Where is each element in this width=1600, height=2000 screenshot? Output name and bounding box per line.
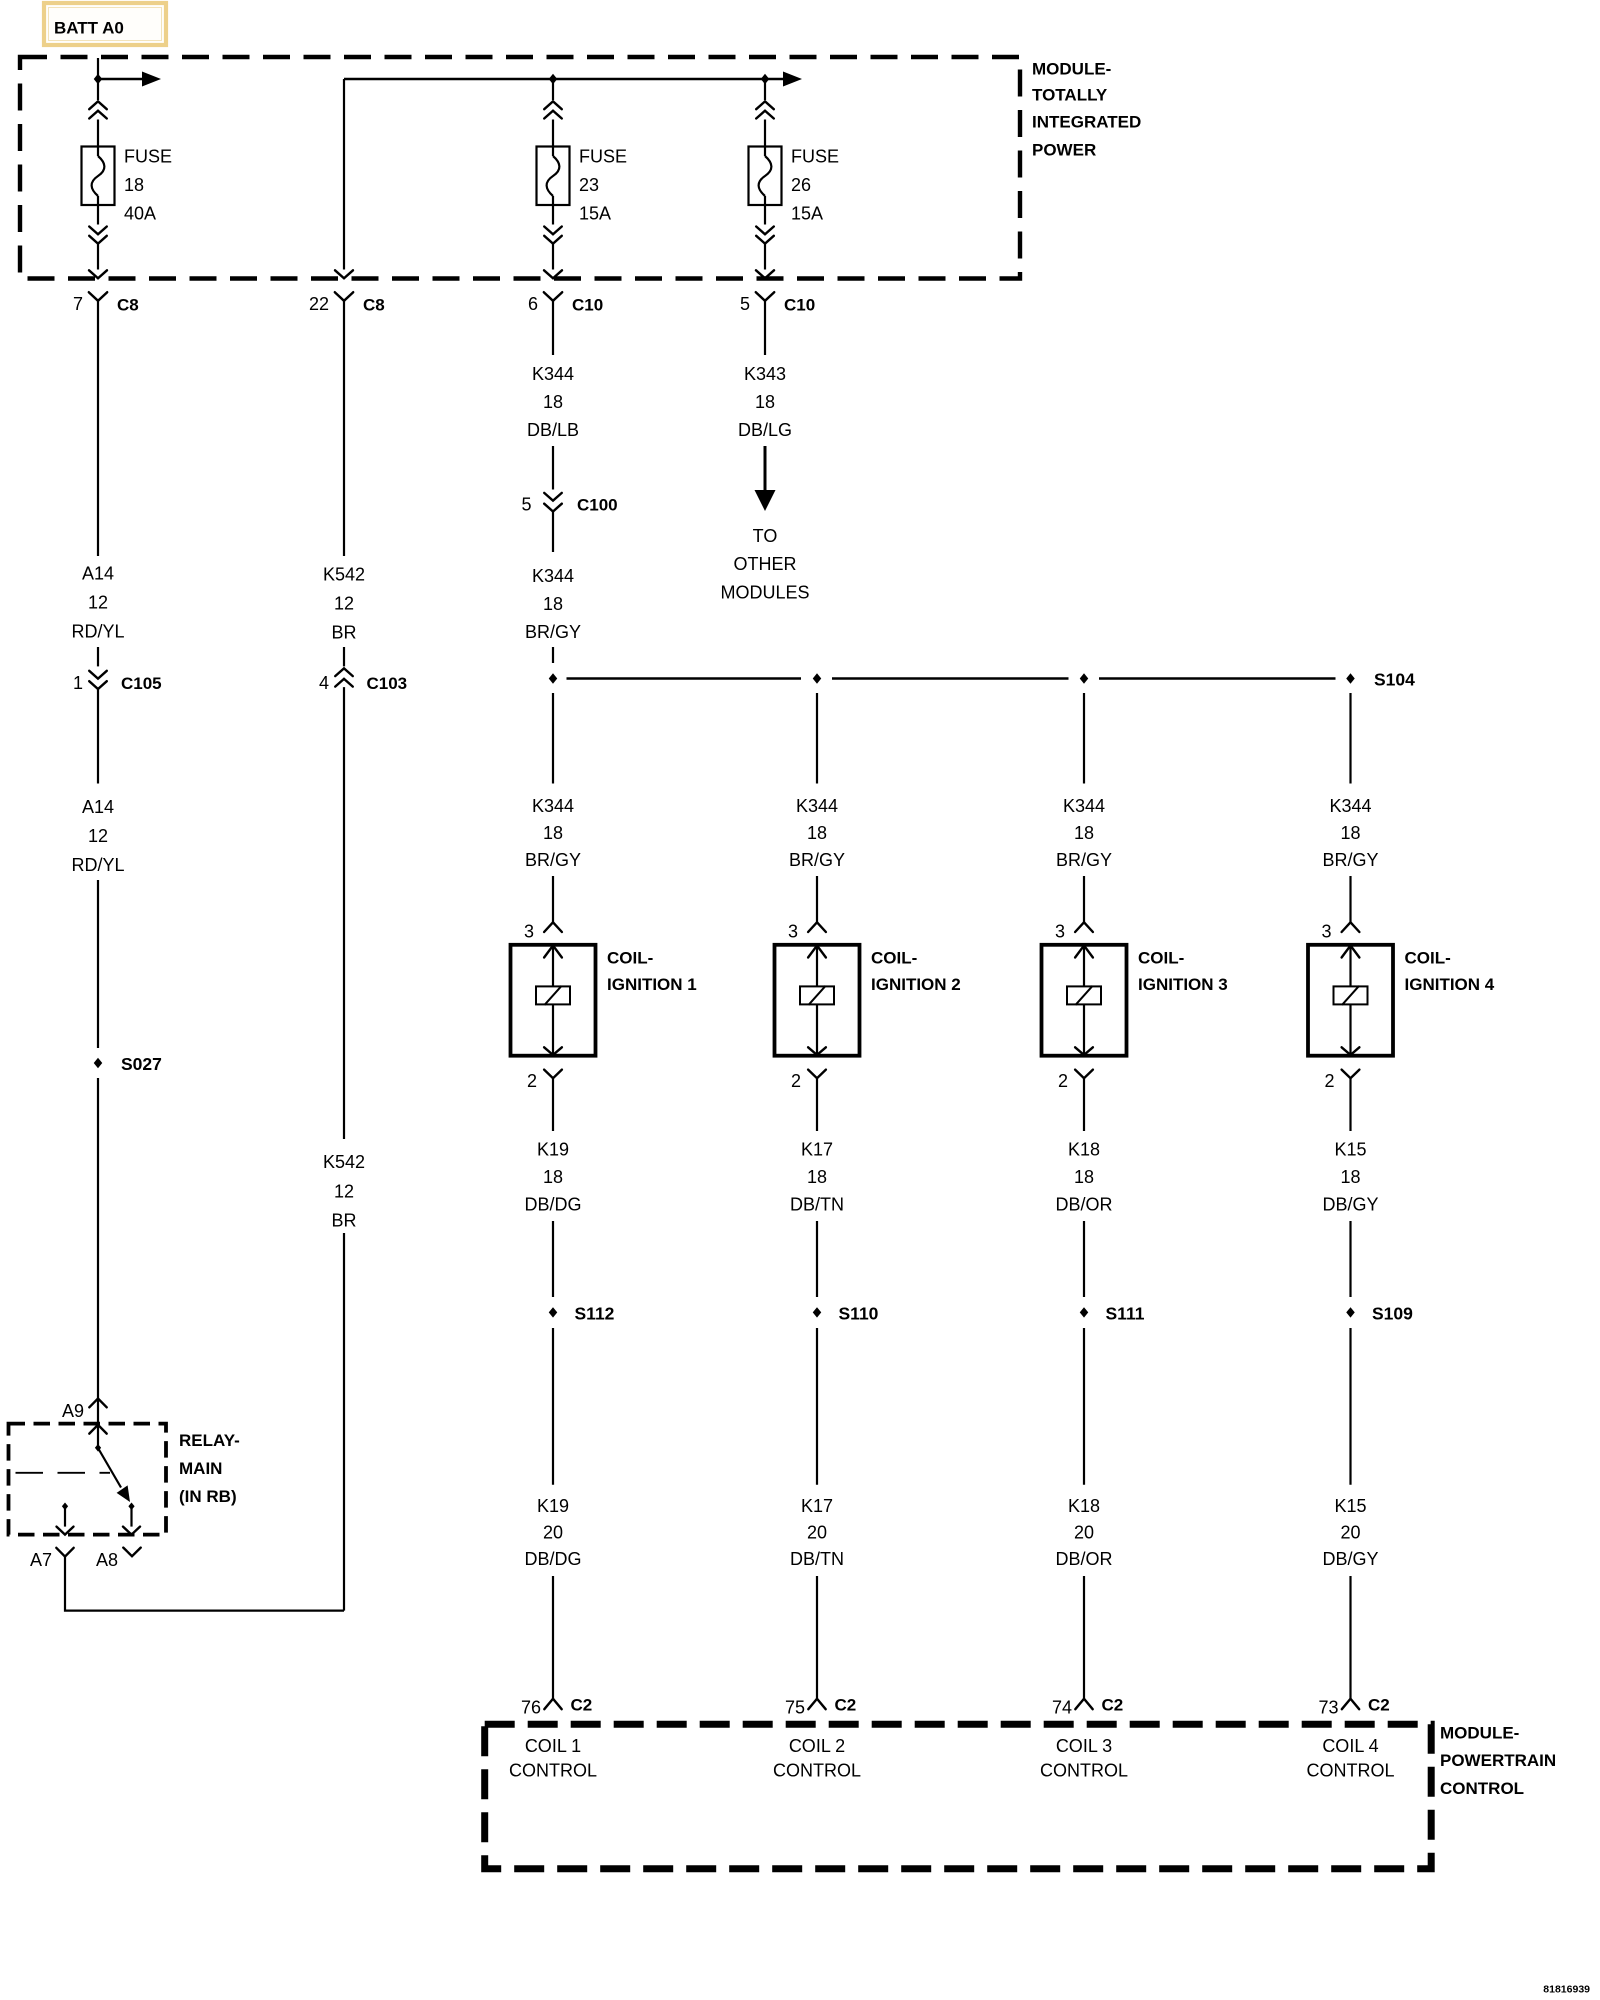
svg-text:C10: C10 [784, 295, 815, 314]
svg-text:18: 18 [1340, 823, 1360, 843]
connector C8 pin 7 [73, 292, 139, 556]
node bus junction col3 [1080, 673, 1089, 683]
svg-text:CONTROL: CONTROL [1306, 1761, 1394, 1781]
wire K19 to splice S112 [552, 1221, 554, 1297]
svg-text:DB/DG: DB/DG [524, 1195, 581, 1215]
wire K19 from splice to label [552, 1328, 554, 1485]
svg-text:20: 20 [1340, 1523, 1360, 1543]
svg-text:12: 12 [88, 593, 108, 613]
svg-text:18: 18 [1074, 823, 1094, 843]
svg-text:A7: A7 [30, 1550, 52, 1570]
node junction dot feed at fuse 26 [761, 74, 770, 84]
connector coil 1 pin 2 [527, 1070, 562, 1131]
wire relay A7 output to K542 column [65, 1557, 344, 1611]
node bus junction col1 [549, 673, 558, 683]
svg-text:CONTROL: CONTROL [509, 1761, 597, 1781]
svg-text:DB/OR: DB/OR [1055, 1549, 1112, 1569]
svg-text:K15: K15 [1334, 1496, 1366, 1516]
connector coil 3 pin 3 [1055, 921, 1093, 941]
connector C100 pin 5 [521, 493, 617, 515]
wire K344 into coil 4 [1349, 876, 1351, 922]
svg-text:C2: C2 [1102, 1696, 1124, 1715]
svg-text:FUSE: FUSE [124, 147, 172, 167]
node splice S112 [549, 1307, 558, 1317]
svg-text:MODULE-: MODULE- [1440, 1724, 1519, 1743]
wire label A14 12 RD/YL (upper) [71, 564, 124, 642]
wire label K344 18 BR/GY (coil 3) [1056, 796, 1112, 870]
wire label K19 20 DB/DG [524, 1496, 581, 1569]
node splice S109 [1346, 1307, 1355, 1317]
svg-text:COIL-: COIL- [607, 949, 653, 968]
svg-text:DB/TN: DB/TN [790, 1549, 844, 1569]
svg-text:IGNITION 3: IGNITION 3 [1138, 975, 1228, 994]
svg-text:18: 18 [124, 175, 144, 195]
svg-text:A14: A14 [82, 797, 114, 817]
wire main feed bus to fuses [344, 78, 783, 81]
svg-text:IGNITION 4: IGNITION 4 [1405, 975, 1495, 994]
wire label K15 18 DB/GY [1322, 1140, 1378, 1215]
connector C103 pin 4 [319, 668, 407, 693]
wire label K344 18 BR/GY (above bus) [525, 566, 581, 642]
svg-text:IGNITION 2: IGNITION 2 [871, 975, 961, 994]
svg-text:DB/GY: DB/GY [1322, 1195, 1378, 1215]
wire K344 to bus splice [552, 647, 554, 663]
svg-text:1: 1 [73, 673, 83, 693]
svg-text:40A: 40A [124, 204, 156, 224]
relay box RELAY-MAIN (dashed) [9, 1424, 167, 1535]
wire label K542 12 BR (upper) [323, 565, 365, 643]
connector coil 4 pin 3 [1321, 921, 1359, 941]
svg-text:DB/TN: DB/TN [790, 1195, 844, 1215]
svg-text:BR/GY: BR/GY [525, 622, 581, 642]
wire relay contact A8 + arrow [130, 1507, 132, 1527]
svg-text:CONTROL: CONTROL [1440, 1779, 1524, 1798]
wire label K17 20 DB/TN [790, 1496, 844, 1569]
wire K15 to PCM [1349, 1576, 1351, 1699]
svg-text:C100: C100 [577, 496, 618, 515]
ignition coil 2 (COIL-IGNITION 2) [775, 945, 860, 1056]
battery feed label BATT A0 [44, 3, 166, 45]
wire battery feed into TIPM [97, 58, 99, 79]
wire K344 into coil 1 [552, 876, 554, 922]
connector coil 2 pin 3 [788, 921, 826, 941]
svg-text:K17: K17 [801, 1496, 833, 1516]
wire short arrow from battery feed [98, 78, 144, 81]
svg-text:FUSE: FUSE [791, 147, 839, 167]
wire K344 below C100 [552, 512, 554, 553]
connector C10 pin 5 [740, 292, 815, 355]
svg-text:C8: C8 [117, 295, 139, 314]
svg-text:S027: S027 [121, 1054, 162, 1074]
svg-text:BR/GY: BR/GY [1056, 850, 1112, 870]
wire K343 arrow TO OTHER MODULES [764, 446, 767, 492]
svg-text:3: 3 [524, 921, 534, 941]
wire K344 into coil 2 [816, 876, 818, 922]
svg-text:K344: K344 [532, 566, 574, 586]
node relay contact to A8 [128, 1503, 134, 1511]
module name MODULE-TOTALLY INTEGRATED POWER [1032, 60, 1141, 160]
svg-text:K344: K344 [532, 364, 574, 384]
relay coil-side arrow (pin A9 input) [89, 1425, 106, 1448]
connector coil 4 pin 2 [1324, 1070, 1359, 1131]
svg-text:TOTALLY: TOTALLY [1032, 86, 1108, 105]
wire K18 to splice S111 [1083, 1221, 1085, 1297]
svg-text:A14: A14 [82, 564, 114, 584]
svg-text:(IN RB): (IN RB) [179, 1487, 237, 1506]
ignition coil 4 (COIL-IGNITION 4) [1308, 945, 1393, 1056]
ignition coil 1 (COIL-IGNITION 1) [511, 945, 596, 1056]
pcm input label COIL 1 CONTROL [509, 1736, 597, 1781]
connector C2 pin 76 [521, 1696, 592, 1718]
svg-text:26: 26 [791, 175, 811, 195]
wire label K19 18 DB/DG [524, 1140, 581, 1215]
wire A14 to splice S027 [97, 880, 99, 1048]
svg-text:DB/OR: DB/OR [1055, 1195, 1112, 1215]
node junction dot on battery feed [94, 74, 103, 84]
wire A14 above C105 [97, 647, 99, 666]
svg-text:BR: BR [331, 623, 356, 643]
svg-text:POWER: POWER [1032, 141, 1096, 160]
svg-text:CONTROL: CONTROL [773, 1761, 861, 1781]
wire label K18 18 DB/OR [1055, 1140, 1112, 1215]
connector coil 3 pin 2 [1058, 1070, 1093, 1131]
svg-text:S109: S109 [1372, 1304, 1413, 1324]
svg-text:2: 2 [1324, 1071, 1334, 1091]
svg-text:73: 73 [1318, 1698, 1338, 1718]
svg-text:K343: K343 [744, 364, 786, 384]
coil name COIL-IGNITION 4 [1405, 949, 1495, 994]
wire relay contact A7 + arrow [64, 1507, 66, 1527]
wire K15 from splice to label [1349, 1328, 1351, 1485]
svg-text:RELAY-: RELAY- [179, 1431, 240, 1450]
svg-text:15A: 15A [579, 204, 611, 224]
svg-text:2: 2 [1058, 1071, 1068, 1091]
svg-text:COIL-: COIL- [871, 949, 917, 968]
svg-text:BR/GY: BR/GY [1322, 850, 1378, 870]
wire label K15 20 DB/GY [1322, 1496, 1378, 1569]
connector C2 pin 73 [1318, 1696, 1389, 1718]
svg-text:K15: K15 [1334, 1140, 1366, 1160]
coil name COIL-IGNITION 1 [607, 949, 697, 994]
wire K344 bus to coil 3 [1083, 693, 1085, 784]
svg-text:4: 4 [319, 673, 329, 693]
pcm input label COIL 4 CONTROL [1306, 1736, 1394, 1781]
svg-text:COIL 3: COIL 3 [1056, 1736, 1112, 1756]
svg-text:K344: K344 [796, 796, 838, 816]
wire label K344 18 BR/GY (coil 1) [525, 796, 581, 870]
svg-text:81816939: 81816939 [1543, 1984, 1590, 1996]
svg-text:MODULES: MODULES [720, 583, 809, 603]
svg-text:S112: S112 [575, 1304, 615, 1324]
svg-text:COIL 2: COIL 2 [789, 1736, 845, 1756]
svg-text:K344: K344 [1329, 796, 1371, 816]
svg-text:K19: K19 [537, 1496, 569, 1516]
wire splice bus S104 [567, 677, 802, 680]
svg-text:C2: C2 [835, 1696, 857, 1715]
svg-text:2: 2 [527, 1071, 537, 1091]
relay internal dashed divider [16, 1472, 111, 1474]
svg-text:74: 74 [1052, 1698, 1072, 1718]
svg-text:18: 18 [543, 392, 563, 412]
svg-text:C10: C10 [572, 295, 603, 314]
wire K542 below C103 [343, 687, 345, 1139]
svg-text:BATT A0: BATT A0 [54, 19, 124, 38]
node bus junction col2 [813, 673, 822, 683]
wire K17 to PCM [816, 1576, 818, 1699]
wire A14 from S027 to relay [97, 1078, 99, 1399]
svg-text:18: 18 [807, 823, 827, 843]
node splice S027 [94, 1058, 103, 1068]
label TO OTHER MODULES [720, 526, 809, 603]
wire K18 from splice to label [1083, 1328, 1085, 1485]
svg-text:COIL-: COIL- [1138, 949, 1184, 968]
svg-text:18: 18 [543, 823, 563, 843]
connector coil 1 pin 3 [524, 921, 562, 941]
ignition coil 3 (COIL-IGNITION 3) [1042, 945, 1127, 1056]
svg-text:IGNITION 1: IGNITION 1 [607, 975, 697, 994]
svg-text:K542: K542 [323, 1152, 365, 1172]
svg-text:RD/YL: RD/YL [71, 622, 124, 642]
wire K344 above C100 [552, 446, 554, 490]
wire label K344 18 BR/GY (coil 4) [1322, 796, 1378, 870]
svg-text:K18: K18 [1068, 1496, 1100, 1516]
svg-text:20: 20 [543, 1523, 563, 1543]
connector C8 pin 22 [309, 292, 385, 556]
svg-text:C2: C2 [571, 1696, 593, 1715]
svg-text:12: 12 [334, 1182, 354, 1202]
wire label K18 20 DB/OR [1055, 1496, 1112, 1569]
wire A14 below C105 [97, 689, 99, 784]
svg-text:DB/LG: DB/LG [738, 420, 792, 440]
wire label K344 18 BR/GY (coil 2) [789, 796, 845, 870]
svg-text:K344: K344 [532, 796, 574, 816]
svg-text:OTHER: OTHER [734, 554, 797, 574]
relay name RELAY-MAIN (IN RB) [179, 1431, 240, 1506]
svg-text:TO: TO [753, 526, 778, 546]
fuse 26 15A [749, 79, 840, 278]
svg-text:FUSE: FUSE [579, 147, 627, 167]
svg-text:7: 7 [73, 294, 83, 314]
svg-text:K542: K542 [323, 565, 365, 585]
connector C105 pin 1 [73, 671, 162, 693]
wire label K344 18 DB/LB [527, 364, 579, 440]
connector C10 pin 6 [528, 292, 603, 355]
svg-text:POWERTRAIN: POWERTRAIN [1440, 1751, 1556, 1770]
svg-text:20: 20 [1074, 1523, 1094, 1543]
svg-text:5: 5 [740, 294, 750, 314]
svg-text:COIL 1: COIL 1 [525, 1736, 581, 1756]
svg-text:15A: 15A [791, 204, 823, 224]
svg-text:DB/GY: DB/GY [1322, 1549, 1378, 1569]
svg-text:75: 75 [785, 1698, 805, 1718]
svg-text:S104: S104 [1374, 670, 1415, 690]
svg-text:2: 2 [791, 1071, 801, 1091]
svg-text:76: 76 [521, 1698, 541, 1718]
wire K17 to splice S110 [816, 1221, 818, 1297]
svg-text:23: 23 [579, 175, 599, 195]
module box MODULE-TOTALLY INTEGRATED POWER (dashed) [20, 57, 1020, 279]
svg-text:C2: C2 [1368, 1696, 1390, 1715]
svg-text:C8: C8 [363, 295, 385, 314]
wire label K542 12 BR (lower) [323, 1152, 365, 1231]
wire K344 into coil 3 [1083, 876, 1085, 922]
fuse 18 40A [82, 79, 173, 278]
node splice S104 [1346, 673, 1355, 683]
wire label K17 18 DB/TN [790, 1140, 844, 1215]
fuse 23 15A [537, 79, 628, 278]
svg-text:CONTROL: CONTROL [1040, 1761, 1128, 1781]
svg-text:BR: BR [331, 1211, 356, 1231]
svg-text:18: 18 [1074, 1167, 1094, 1187]
node splice S111 [1080, 1307, 1089, 1317]
svg-text:20: 20 [807, 1523, 827, 1543]
svg-text:BR/GY: BR/GY [789, 850, 845, 870]
coil name COIL-IGNITION 3 [1138, 949, 1228, 994]
wire K344 bus to coil 2 [816, 693, 818, 784]
node splice S110 [813, 1307, 822, 1317]
wire label K343 18 DB/LG [738, 364, 792, 440]
module box MODULE-POWERTRAIN CONTROL (dashed) [485, 1724, 1431, 1869]
wire K15 to splice S109 [1349, 1221, 1351, 1297]
svg-text:A8: A8 [96, 1550, 118, 1570]
wire K19 to PCM [552, 1576, 554, 1699]
connector C2 pin 74 [1052, 1696, 1123, 1718]
svg-text:K17: K17 [801, 1140, 833, 1160]
coil name COIL-IGNITION 2 [871, 949, 961, 994]
svg-text:K18: K18 [1068, 1140, 1100, 1160]
svg-text:18: 18 [807, 1167, 827, 1187]
svg-text:BR/GY: BR/GY [525, 850, 581, 870]
svg-text:3: 3 [1321, 921, 1331, 941]
svg-text:C103: C103 [367, 674, 408, 693]
relay switch arm (diagonal arrow) [98, 1448, 121, 1488]
wire K542 above C103 [343, 647, 345, 666]
node junction dot feed at fuse 23 [549, 74, 558, 84]
connector C2 pin 75 [785, 1696, 856, 1718]
svg-text:6: 6 [528, 294, 538, 314]
svg-text:18: 18 [755, 392, 775, 412]
svg-text:MAIN: MAIN [179, 1459, 222, 1478]
svg-text:S110: S110 [839, 1304, 879, 1324]
node relay common [95, 1444, 101, 1452]
wire K542 to relay A7 corner [343, 1233, 345, 1611]
wire K344 bus to coil 1 [552, 693, 554, 784]
svg-text:RD/YL: RD/YL [71, 855, 124, 875]
wire K344 bus to coil 4 [1349, 693, 1351, 784]
svg-text:DB/LB: DB/LB [527, 420, 579, 440]
svg-text:COIL-: COIL- [1405, 949, 1451, 968]
svg-text:MODULE-: MODULE- [1032, 60, 1111, 79]
svg-text:C105: C105 [121, 674, 162, 693]
svg-text:COIL 4: COIL 4 [1322, 1736, 1378, 1756]
module name MODULE-POWERTRAIN CONTROL [1440, 1724, 1556, 1799]
svg-text:A9: A9 [62, 1401, 84, 1421]
svg-text:12: 12 [334, 594, 354, 614]
wire K17 from splice to label [816, 1328, 818, 1485]
svg-text:18: 18 [543, 594, 563, 614]
svg-text:S111: S111 [1106, 1304, 1145, 1324]
connector relay pin A7 [30, 1548, 74, 1570]
svg-text:22: 22 [309, 294, 329, 314]
svg-text:3: 3 [1055, 921, 1065, 941]
connector relay pin A9 [62, 1399, 107, 1425]
pcm input label COIL 3 CONTROL [1040, 1736, 1128, 1781]
connector relay pin A8 [96, 1548, 141, 1570]
svg-text:DB/DG: DB/DG [524, 1549, 581, 1569]
svg-text:K344: K344 [1063, 796, 1105, 816]
svg-text:K19: K19 [537, 1140, 569, 1160]
node relay contact to A7 [62, 1503, 68, 1511]
svg-text:INTEGRATED: INTEGRATED [1032, 113, 1141, 132]
pcm input label COIL 2 CONTROL [773, 1736, 861, 1781]
wire label A14 12 RD/YL (lower) [71, 797, 124, 875]
svg-text:12: 12 [88, 826, 108, 846]
connector coil 2 pin 2 [791, 1070, 826, 1131]
wire K18 to PCM [1083, 1576, 1085, 1699]
svg-text:5: 5 [521, 495, 531, 515]
svg-text:18: 18 [1340, 1167, 1360, 1187]
svg-text:18: 18 [543, 1167, 563, 1187]
svg-text:3: 3 [788, 921, 798, 941]
